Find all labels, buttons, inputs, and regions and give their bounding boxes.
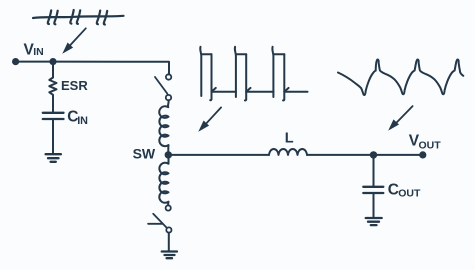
label COUT [388, 181, 421, 199]
ground (switch leg) [162, 252, 177, 259]
node VIN input terminal [12, 58, 19, 65]
switch S1 (top) [155, 74, 171, 100]
svg-text:SW: SW [133, 145, 156, 161]
resistor ESR [49, 78, 56, 97]
label VOUT [409, 132, 441, 151]
node VOUT output terminal [419, 151, 426, 158]
wire top rail to switch [53, 62, 169, 75]
arrow to VOUT node [388, 106, 412, 131]
wire junction down to COUT [373, 155, 375, 186]
ground (input) [46, 154, 61, 162]
wire inductor L to VOUT [307, 154, 423, 156]
ground (output) [366, 218, 382, 225]
wire SW node to inductor L [168, 154, 269, 156]
svg-text:OUT: OUT [398, 188, 421, 200]
arrow to SW node [198, 107, 221, 131]
wire COUT to ground [373, 194, 375, 218]
svg-text:ESR: ESR [61, 78, 88, 93]
svg-text:L: L [285, 131, 294, 147]
label CIN [67, 108, 88, 127]
svg-text:IN: IN [33, 46, 44, 58]
lower winding of switch-node coil [159, 159, 168, 206]
inductor L [269, 149, 307, 155]
input noise waveform sketch [33, 10, 124, 25]
switch-node square waveform sketch [200, 47, 307, 101]
wire VIN junction down to ESR [52, 62, 54, 78]
capacitor CIN [43, 113, 64, 119]
svg-text:IN: IN [77, 115, 88, 127]
svg-text:OUT: OUT [419, 140, 442, 152]
junction at COUT [370, 151, 377, 158]
output ripple waveform sketch [338, 59, 463, 95]
wire CIN to ground [52, 120, 54, 154]
junction at VIN node [49, 58, 56, 65]
arrow to VIN node [62, 28, 86, 53]
switch S2 (bottom) [148, 205, 171, 232]
node SW junction [165, 151, 172, 158]
label VIN [24, 41, 44, 58]
wire switch S2 to ground [168, 233, 170, 251]
wire ESR to CIN [52, 96, 54, 113]
capacitor COUT [363, 187, 383, 193]
upper winding of switch-node coil [159, 100, 168, 151]
wire VIN terminal to junction [16, 61, 53, 63]
